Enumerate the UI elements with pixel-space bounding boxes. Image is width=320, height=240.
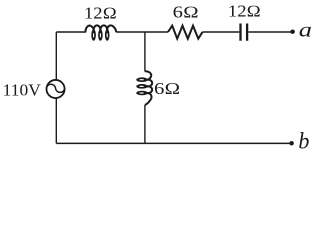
- wire bottom rail: [56, 142, 291, 144]
- svg-text:12Ω: 12Ω: [228, 2, 261, 21]
- AC source V1 circle: [47, 80, 65, 98]
- svg-text:a: a: [299, 20, 312, 42]
- svg-text:b: b: [298, 128, 309, 154]
- inductor L1 12ohm horizontal: [85, 25, 116, 40]
- wire top rail to terminal a: [248, 31, 292, 33]
- inductor L2 6ohm vertical: [136, 71, 152, 105]
- AC source sine wave: [46, 84, 64, 92]
- wire left rail upper: [55, 32, 57, 79]
- terminal a dot: [290, 29, 295, 34]
- wire top rail left segment: [56, 31, 86, 33]
- svg-text:110V: 110V: [3, 80, 41, 99]
- wire middle rail upper: [144, 32, 146, 72]
- wire top rail middle segment: [116, 31, 168, 33]
- svg-text:6Ω: 6Ω: [173, 3, 199, 22]
- resistor R1 6ohm: [168, 26, 203, 39]
- wire middle rail lower: [144, 105, 146, 144]
- wire left rail lower: [55, 99, 57, 144]
- wire top rail right of resistor: [203, 31, 240, 33]
- svg-text:6Ω: 6Ω: [154, 79, 180, 98]
- svg-text:12Ω: 12Ω: [84, 4, 117, 23]
- terminal b dot: [289, 141, 294, 146]
- capacitor C1 12ohm plates: [241, 24, 248, 41]
